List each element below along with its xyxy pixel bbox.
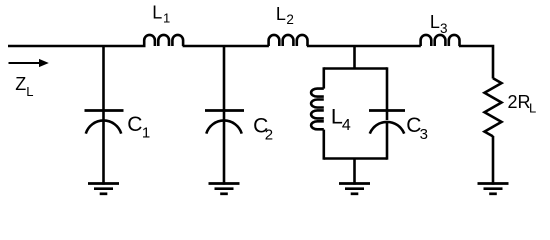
wire tank rectangle top edge bbox=[324, 67, 387, 70]
svg-text:1: 1 bbox=[163, 10, 170, 25]
wire tank bottom stub to ground bbox=[353, 159, 356, 185]
resistor 2RL bbox=[485, 78, 502, 136]
wire node B drop to C2 bbox=[223, 46, 226, 120]
svg-text:L: L bbox=[529, 101, 536, 116]
inductor L1 bbox=[144, 35, 183, 46]
svg-text:L: L bbox=[276, 4, 286, 24]
capacitor C2 bbox=[205, 111, 244, 185]
capacitor C3 bbox=[369, 111, 405, 160]
inductor L4 bbox=[311, 89, 324, 130]
svg-text:L: L bbox=[152, 2, 162, 22]
wire tank right edge upper bbox=[386, 67, 389, 120]
ground under C1 bbox=[88, 184, 119, 194]
arrow for ZL bbox=[9, 59, 49, 67]
wire top rail segment 1 bbox=[8, 45, 146, 48]
svg-text:L: L bbox=[430, 12, 440, 32]
svg-text:2: 2 bbox=[265, 126, 273, 143]
wire top rail segment 2 bbox=[183, 45, 269, 48]
svg-text:Z: Z bbox=[15, 74, 26, 94]
ground under C2 bbox=[209, 184, 240, 194]
svg-text:1: 1 bbox=[142, 124, 150, 141]
svg-text:3: 3 bbox=[440, 21, 448, 36]
ground under resistor bbox=[478, 184, 509, 194]
svg-text:L: L bbox=[26, 84, 33, 99]
svg-text:3: 3 bbox=[420, 126, 428, 143]
capacitor C1 bbox=[85, 111, 124, 185]
wire top rail segment 4 with right corner bbox=[459, 46, 493, 79]
svg-text:4: 4 bbox=[342, 117, 351, 134]
wire tank left edge upper bbox=[322, 67, 325, 88]
ground under tank bbox=[339, 184, 370, 194]
wire tank left edge lower bbox=[322, 130, 325, 160]
inductor L2 bbox=[269, 35, 308, 46]
wire node C drop to tank bbox=[353, 46, 356, 69]
svg-text:2: 2 bbox=[286, 12, 294, 27]
wire tank bottom edge bbox=[324, 157, 387, 160]
wire node A drop to C1 bbox=[102, 46, 105, 120]
svg-text:C: C bbox=[127, 113, 142, 136]
inductor L3 bbox=[421, 35, 460, 46]
svg-text:2R: 2R bbox=[508, 92, 531, 112]
wire top rail segment 3 bbox=[307, 45, 421, 48]
wire resistor bottom lead bbox=[492, 136, 495, 185]
